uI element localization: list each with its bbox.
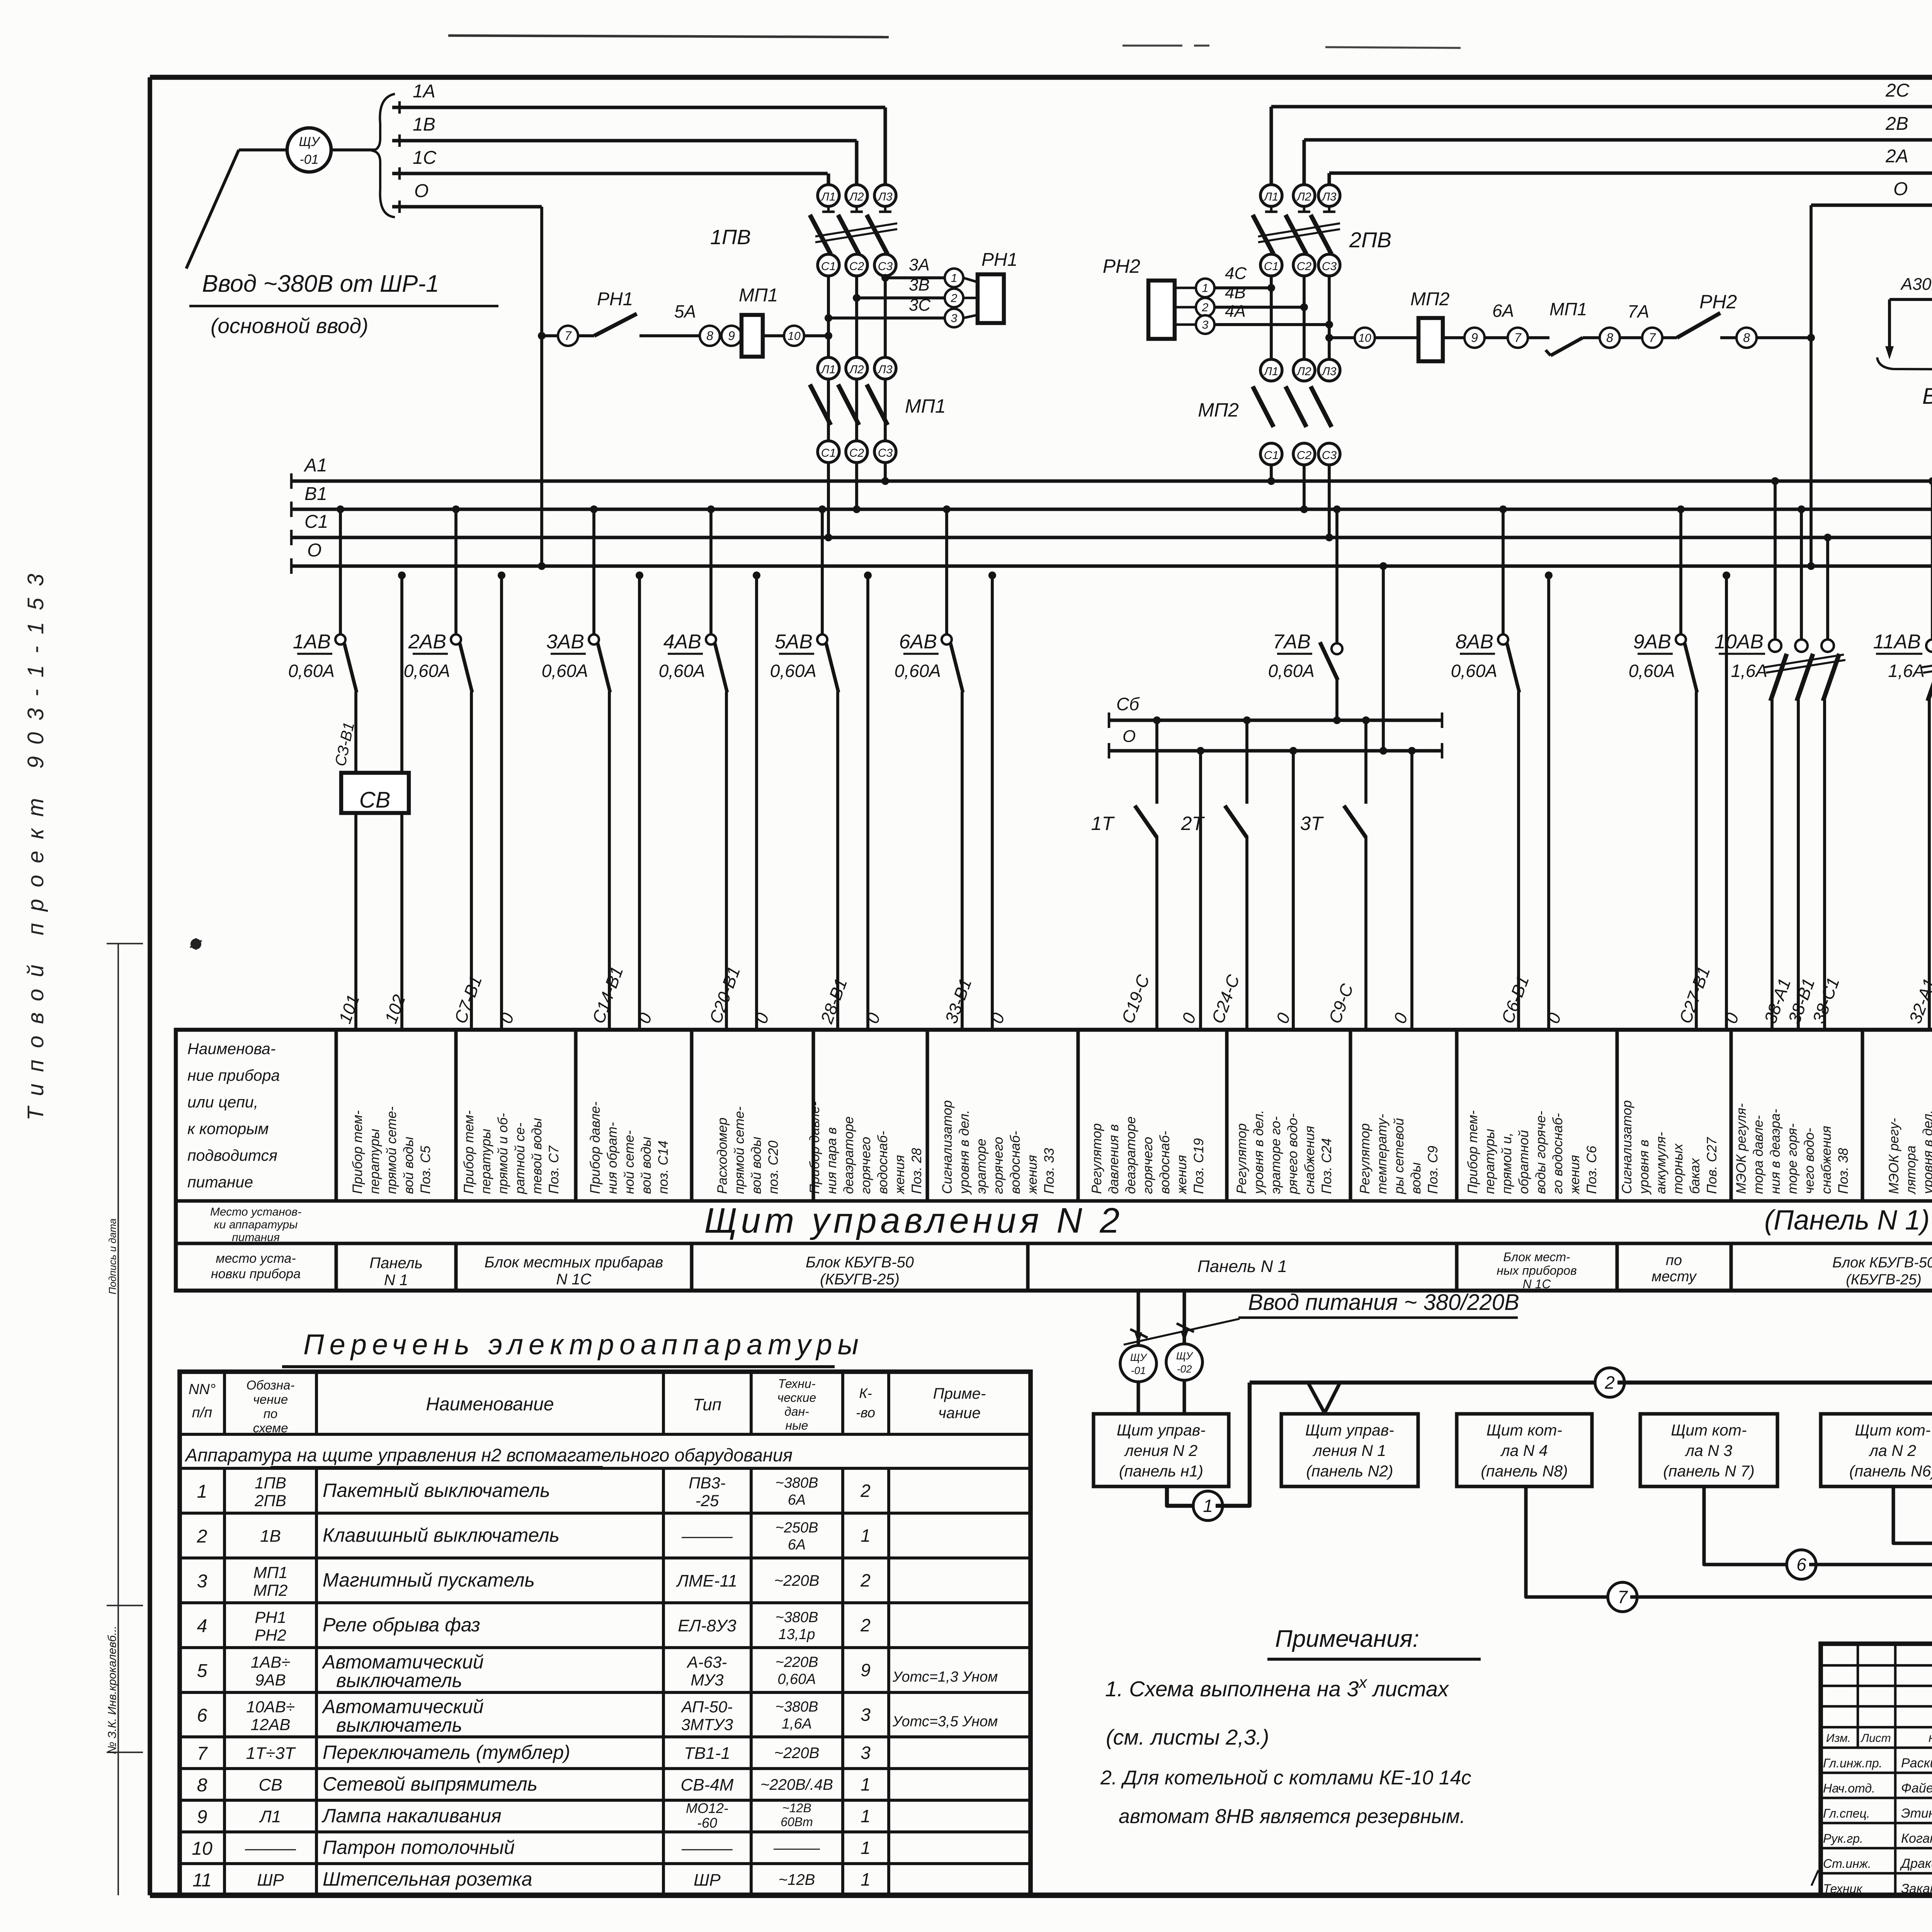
svg-text:2С: 2С (1885, 80, 1910, 101)
svg-text:~380В: ~380В (776, 1475, 818, 1491)
svg-text:13,1р: 13,1р (778, 1626, 815, 1643)
svg-text:3МТУ3: 3МТУ3 (681, 1716, 733, 1734)
svg-text:Ввод ~380В от ШР-1: Ввод ~380В от ШР-1 (202, 270, 439, 297)
svg-text:~12В: ~12В (782, 1801, 811, 1815)
svg-text:1: 1 (861, 1774, 871, 1794)
svg-text:ЕЛ-8У3: ЕЛ-8У3 (678, 1616, 736, 1635)
svg-text:подводится: подводится (187, 1146, 277, 1164)
svg-text:РН1: РН1 (255, 1608, 286, 1626)
svg-text:0,60А: 0,60А (1268, 661, 1315, 681)
svg-text:3: 3 (861, 1743, 871, 1763)
svg-text:2: 2 (1604, 1372, 1615, 1393)
svg-text:7: 7 (1514, 331, 1522, 345)
svg-text:С3: С3 (878, 447, 893, 459)
svg-text:6: 6 (197, 1706, 207, 1726)
svg-text:ЛМЕ-11: ЛМЕ-11 (676, 1571, 738, 1590)
svg-text:Реле обрыва фаз: Реле обрыва фаз (323, 1614, 480, 1636)
svg-text:~220В: ~220В (774, 1745, 820, 1762)
svg-text:Закамаркова: Закамаркова (1901, 1881, 1932, 1896)
svg-text:11АВ: 11АВ (1873, 631, 1921, 653)
svg-text:-25: -25 (696, 1492, 719, 1510)
svg-text:~220В: ~220В (774, 1572, 820, 1589)
svg-text:5: 5 (197, 1661, 207, 1681)
svg-text:С1: С1 (1264, 260, 1279, 273)
svg-text:С2: С2 (849, 260, 864, 273)
svg-text:1Т÷3Т: 1Т÷3Т (246, 1744, 296, 1763)
svg-text:1Т: 1Т (1091, 813, 1115, 834)
svg-text:9: 9 (1471, 331, 1478, 345)
svg-text:СВ: СВ (259, 1776, 282, 1794)
svg-text:ПВ3-: ПВ3- (689, 1474, 726, 1492)
svg-text:8: 8 (1743, 331, 1750, 345)
svg-text:7А: 7А (1628, 301, 1649, 321)
svg-text:Щит управ-ления N 2(панель н1): Щит управ-ления N 2(панель н1) (1117, 1421, 1206, 1480)
svg-text:~12В: ~12В (779, 1871, 815, 1888)
svg-text:Аппаратура на щите управления: Аппаратура на щите управления н2 вспомаг… (184, 1445, 793, 1465)
svg-text:В1: В1 (304, 484, 327, 504)
svg-text:3: 3 (861, 1705, 871, 1725)
svg-text:Сетевой выпрямитель: Сетевой выпрямитель (323, 1773, 537, 1795)
svg-text:7: 7 (1617, 1587, 1628, 1607)
svg-text:0,60А: 0,60А (1451, 661, 1497, 681)
svg-text:ШР: ШР (257, 1871, 284, 1889)
svg-text:Штепсельная розетка: Штепсельная розетка (323, 1868, 532, 1890)
svg-text:ЩУ: ЩУ (1130, 1352, 1148, 1363)
svg-text:А-63-: А-63- (686, 1653, 727, 1671)
svg-text:4АВ: 4АВ (663, 631, 701, 653)
svg-text:Раскин: Раскин (1901, 1756, 1932, 1770)
svg-text:0,60А: 0,60А (895, 661, 941, 681)
svg-text:О: О (1122, 727, 1136, 746)
svg-text:-02: -02 (1177, 1363, 1192, 1375)
svg-text:2А: 2А (1885, 146, 1908, 167)
svg-text:О: О (1893, 179, 1908, 199)
svg-text:№ З.К. Инв.крокалевб...: № З.К. Инв.крокалевб... (106, 1626, 119, 1754)
svg-text:4: 4 (197, 1616, 207, 1636)
svg-text:6: 6 (1796, 1554, 1806, 1575)
svg-text:9: 9 (728, 329, 735, 343)
svg-text:2: 2 (860, 1570, 871, 1590)
svg-text:5АВ: 5АВ (775, 631, 813, 653)
svg-text:3: 3 (197, 1571, 207, 1592)
svg-text:Уотс=3,5 Уном: Уотс=3,5 Уном (892, 1714, 998, 1730)
svg-text:РН1: РН1 (981, 250, 1017, 270)
svg-text:1: 1 (1202, 282, 1209, 295)
svg-text:11: 11 (192, 1870, 212, 1891)
svg-text:4В: 4В (1225, 283, 1246, 302)
svg-text:РН2: РН2 (1103, 255, 1140, 277)
svg-text:6АВ: 6АВ (899, 631, 937, 653)
svg-text:Подпись и дата: Подпись и дата (107, 1218, 118, 1294)
svg-text:1: 1 (861, 1526, 871, 1546)
svg-text:н°докум.: н°докум. (1929, 1731, 1932, 1745)
svg-text:3А: 3А (909, 255, 930, 274)
svg-text:к которым: к которым (187, 1120, 269, 1138)
svg-text:0,60А: 0,60А (288, 661, 335, 681)
svg-text:~250В: ~250В (776, 1520, 818, 1536)
svg-text:3В: 3В (909, 276, 930, 294)
svg-text:Наименова-: Наименова- (187, 1040, 276, 1058)
svg-text:С1: С1 (304, 512, 328, 532)
svg-text:1С: 1С (413, 148, 437, 168)
svg-text:МП1: МП1 (905, 395, 946, 417)
svg-text:1В: 1В (260, 1527, 281, 1546)
svg-text:1,6А: 1,6А (782, 1716, 812, 1732)
svg-text:Лампа накаливания: Лампа накаливания (321, 1805, 502, 1827)
svg-text:Клавишный выключатель: Клавишный выключатель (323, 1524, 560, 1546)
svg-text:Изм.: Изм. (1826, 1732, 1851, 1745)
svg-text:12АВ: 12АВ (251, 1716, 291, 1734)
svg-text:Техник: Техник (1823, 1882, 1863, 1896)
svg-text:Ст.инж.: Ст.инж. (1823, 1857, 1871, 1871)
svg-text:Рук.гр.: Рук.гр. (1823, 1832, 1863, 1845)
svg-text:Уотс=1,3 Уном: Уотс=1,3 Уном (892, 1669, 998, 1685)
svg-text:1ПВ: 1ПВ (710, 226, 751, 249)
svg-text:Коганов: Коганов (1901, 1831, 1932, 1846)
svg-text:0,60А: 0,60А (770, 661, 816, 681)
svg-text:Л2: Л2 (1296, 365, 1311, 378)
svg-text:(Панель N 1): (Панель N 1) (1764, 1205, 1930, 1236)
svg-text:РН2: РН2 (1699, 291, 1737, 313)
svg-text:3АВ: 3АВ (546, 631, 584, 653)
svg-text:1: 1 (197, 1481, 207, 1502)
svg-text:Пакетный выключатель: Пакетный выключатель (323, 1480, 550, 1501)
svg-text:Л1: Л1 (1263, 365, 1278, 378)
svg-text:7: 7 (1649, 331, 1656, 345)
svg-text:Л1: Л1 (820, 363, 835, 376)
svg-text:выключатель: выключатель (336, 1714, 462, 1736)
svg-text:Щит управления N 2: Щит управления N 2 (704, 1201, 1124, 1240)
svg-text:Гл.инж.пр.: Гл.инж.пр. (1823, 1756, 1883, 1770)
svg-text:———: ——— (773, 1840, 820, 1857)
svg-text:Л2: Л2 (849, 363, 864, 376)
svg-text:А301: А301 (1900, 275, 1932, 294)
svg-text:(основной ввод): (основной ввод) (211, 314, 368, 338)
svg-text:автомат 8НВ является резер: автомат 8НВ является резервным. (1119, 1805, 1465, 1828)
svg-text:МО12-: МО12- (686, 1800, 728, 1816)
svg-text:10АВ: 10АВ (1714, 631, 1764, 653)
svg-text:~220В/.4В: ~220В/.4В (760, 1776, 833, 1793)
svg-text:60Вт: 60Вт (781, 1815, 813, 1829)
svg-text:С1: С1 (1264, 449, 1279, 462)
svg-text:О: О (307, 540, 321, 561)
svg-text:0,60А: 0,60А (1629, 661, 1675, 681)
svg-text:~220В: ~220В (776, 1654, 818, 1670)
svg-text:9: 9 (861, 1660, 871, 1680)
svg-text:МП1: МП1 (739, 285, 778, 306)
svg-text:2: 2 (197, 1526, 207, 1547)
svg-text:ние прибора: ние прибора (187, 1066, 280, 1084)
svg-text:С3: С3 (1322, 449, 1337, 462)
svg-text:РН1: РН1 (597, 289, 633, 310)
svg-text:Наименование: Наименование (426, 1394, 554, 1415)
svg-text:Файерштейн: Файерштейн (1901, 1781, 1932, 1796)
svg-text:ЩУ: ЩУ (299, 134, 320, 149)
svg-text:———: ——— (245, 1839, 296, 1858)
svg-text:3С: 3С (909, 296, 931, 315)
svg-text:или цепи,: или цепи, (187, 1093, 258, 1111)
svg-text:Л2: Л2 (849, 190, 864, 203)
svg-text:Перечень электроаппаратуры: Перечень электроаппаратуры (303, 1328, 864, 1361)
svg-text:ТВ1-1: ТВ1-1 (684, 1744, 730, 1763)
svg-text:~380В: ~380В (776, 1699, 818, 1715)
svg-text:2: 2 (860, 1615, 871, 1635)
svg-text:8: 8 (197, 1775, 207, 1796)
svg-text:Л1: Л1 (259, 1807, 281, 1826)
svg-text:1: 1 (861, 1806, 871, 1826)
svg-text:2: 2 (860, 1481, 871, 1501)
svg-text:Л3: Л3 (877, 190, 893, 203)
svg-text:1,6А: 1,6А (1731, 661, 1767, 681)
svg-text:1: 1 (861, 1838, 871, 1858)
svg-text:0,60А: 0,60А (777, 1671, 816, 1687)
svg-text:Примечания:: Примечания: (1275, 1626, 1419, 1652)
svg-text:Лист: Лист (1860, 1732, 1891, 1745)
svg-text:питание: питание (187, 1173, 253, 1191)
svg-text:4С: 4С (1225, 264, 1247, 283)
svg-text:Дракина: Дракина (1900, 1856, 1932, 1871)
svg-text:РН2: РН2 (255, 1626, 286, 1644)
svg-text:С2: С2 (1297, 449, 1312, 462)
svg-text:0,60А: 0,60А (542, 661, 588, 681)
svg-text:СВ: СВ (359, 787, 391, 813)
svg-text:1В: 1В (413, 114, 435, 135)
svg-text:-60: -60 (697, 1815, 717, 1831)
svg-text:Этинген: Этинген (1901, 1806, 1932, 1821)
svg-text:1АВ÷: 1АВ÷ (251, 1653, 290, 1671)
svg-text:1. Схема выполнена на 3х: 1. Схема выполнена на 3х листах (1105, 1673, 1449, 1701)
svg-text:2: 2 (1202, 301, 1209, 314)
svg-text:1АВ: 1АВ (293, 631, 331, 653)
svg-text:С3: С3 (878, 260, 893, 273)
svg-text:1: 1 (1203, 1496, 1213, 1516)
svg-text:2: 2 (951, 292, 957, 305)
svg-text:-01: -01 (299, 152, 318, 167)
svg-text:ЩУ: ЩУ (1176, 1350, 1194, 1362)
svg-text:МП2: МП2 (253, 1581, 288, 1599)
svg-text:1: 1 (951, 272, 957, 285)
svg-text:8: 8 (1606, 331, 1613, 345)
svg-text:9АВ: 9АВ (1633, 631, 1671, 653)
svg-text:Панель N 1: Панель N 1 (1197, 1257, 1287, 1276)
svg-text:6А: 6А (1492, 301, 1514, 321)
svg-text:10АВ÷: 10АВ÷ (246, 1698, 295, 1716)
svg-text:———: ——— (681, 1527, 733, 1546)
svg-text:4А: 4А (1225, 302, 1246, 321)
svg-text:Л3: Л3 (1321, 365, 1337, 378)
svg-text:3: 3 (1202, 319, 1209, 332)
svg-text:7: 7 (565, 329, 572, 343)
svg-text:3: 3 (951, 312, 957, 325)
svg-text:Ввод питания ~ 380/220В: Ввод питания ~ 380/220В (1248, 1290, 1519, 1315)
svg-text:О: О (414, 181, 429, 201)
svg-text:Л2: Л2 (1296, 190, 1311, 203)
svg-text:1,6А: 1,6А (1888, 661, 1925, 681)
svg-text:ШР: ШР (694, 1871, 721, 1889)
svg-text:10: 10 (1358, 332, 1371, 345)
svg-text:3Т: 3Т (1300, 813, 1324, 834)
svg-text:8: 8 (706, 329, 713, 343)
svg-text:6А: 6А (788, 1537, 806, 1553)
svg-text:5А: 5А (674, 301, 696, 321)
svg-text:1ПВ: 1ПВ (255, 1474, 286, 1492)
svg-text:Тип: Тип (693, 1395, 721, 1414)
svg-text:Сб: Сб (1116, 694, 1140, 714)
svg-text:7: 7 (197, 1743, 208, 1764)
svg-text:В схему технологической сигн: В схему технологической сигнализации (1922, 384, 1932, 409)
svg-text:С3: С3 (1322, 260, 1337, 273)
svg-text:Патрон потолочный: Патрон потолочный (323, 1837, 515, 1858)
svg-text:Л3: Л3 (1321, 190, 1337, 203)
svg-text:С2: С2 (1297, 260, 1312, 273)
svg-text:Л3: Л3 (877, 363, 893, 376)
svg-text:Нач.отд.: Нач.отд. (1823, 1781, 1875, 1795)
svg-text:8АВ: 8АВ (1456, 631, 1493, 653)
svg-text:Типовой проект 903-1-153: Типовой проект 903-1-153 (23, 562, 48, 1121)
svg-text:МП1: МП1 (1549, 299, 1587, 319)
svg-text:2В: 2В (1885, 114, 1908, 134)
svg-text:Л1: Л1 (820, 190, 835, 203)
svg-text:7АВ: 7АВ (1273, 631, 1311, 653)
svg-text:МУ3: МУ3 (690, 1671, 723, 1689)
svg-text:выключатель: выключатель (336, 1670, 462, 1691)
svg-text:1А: 1А (413, 81, 435, 102)
svg-text:А1: А1 (303, 455, 327, 476)
svg-text:6А: 6А (788, 1492, 806, 1508)
svg-text:10: 10 (787, 330, 801, 343)
svg-text:МП2: МП2 (1410, 289, 1449, 310)
svg-text:0,60А: 0,60А (404, 661, 450, 681)
svg-text:Л1: Л1 (1263, 190, 1278, 203)
svg-text:2АВ: 2АВ (408, 631, 446, 653)
svg-text:-01: -01 (1131, 1365, 1146, 1376)
svg-text:———: ——— (681, 1839, 733, 1858)
svg-text:Переключатель (тумблер): Переключатель (тумблер) (323, 1742, 570, 1763)
svg-text:С2: С2 (849, 447, 864, 459)
svg-text:2ПВ: 2ПВ (1349, 228, 1391, 252)
svg-text:СВ-4М: СВ-4М (681, 1776, 734, 1794)
svg-text:МП2: МП2 (1198, 399, 1239, 421)
svg-text:АП-50-: АП-50- (680, 1698, 733, 1716)
svg-text:С1: С1 (821, 260, 836, 273)
svg-text:~380В: ~380В (776, 1609, 818, 1626)
svg-text:Магнитный пускатель: Магнитный пускатель (323, 1569, 535, 1591)
svg-text:2ПВ: 2ПВ (254, 1492, 286, 1510)
svg-text:9: 9 (197, 1807, 207, 1827)
svg-text:1: 1 (861, 1869, 871, 1889)
svg-text:10: 10 (192, 1838, 213, 1859)
svg-text:(см. листы 2,3.): (см. листы 2,3.) (1106, 1725, 1269, 1749)
svg-text:2. Для котельной с котлами: 2. Для котельной с котлами КЕ-10 14с (1100, 1767, 1471, 1789)
svg-text:0,60А: 0,60А (659, 661, 705, 681)
svg-text:9АВ: 9АВ (255, 1671, 286, 1689)
svg-text:МП1: МП1 (253, 1563, 288, 1582)
svg-text:С1: С1 (821, 447, 836, 459)
svg-text:Гл.спец.: Гл.спец. (1823, 1806, 1870, 1820)
svg-text:Щит управ-ления N 1(панель N2): Щит управ-ления N 1(панель N2) (1305, 1421, 1394, 1480)
svg-text:Блок КБУГВ-50(КБУГВ-25): Блок КБУГВ-50(КБУГВ-25) (806, 1254, 914, 1288)
